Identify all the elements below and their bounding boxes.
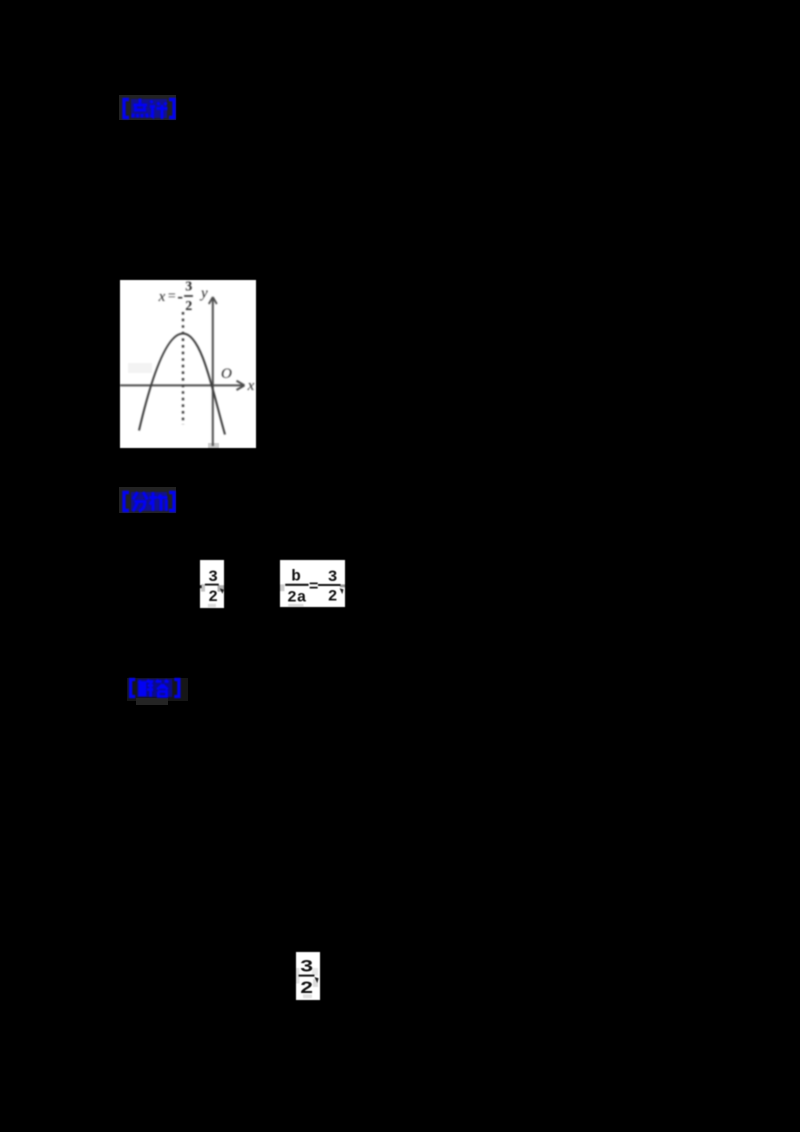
label 1 【点评】 blue heading with dark highlight box bbox=[119, 95, 176, 120]
svg-text:y: y bbox=[199, 286, 208, 302]
labels bbox=[158, 279, 255, 394]
x-axis bbox=[120, 384, 244, 386]
svg-text:2: 2 bbox=[185, 299, 192, 314]
【 bbox=[124, 100, 129, 118]
svg-text:=: = bbox=[309, 578, 319, 596]
formula image 3: 3/2 (white box, bottom) bbox=[296, 952, 320, 1000]
svg-text:3: 3 bbox=[208, 568, 218, 586]
parabola bbox=[139, 334, 225, 435]
formula image 1: 3/2 (white box) bbox=[200, 560, 224, 608]
svg-text:3: 3 bbox=[185, 280, 192, 294]
svg-text:O: O bbox=[221, 366, 232, 382]
dashed axis of symmetry x=-3/2 bbox=[182, 312, 184, 425]
label 2 【分析】 blue heading with dark highlight box bbox=[119, 487, 176, 513]
formula image 2: b/2a = -3/2 (white box) bbox=[280, 560, 345, 607]
解 bbox=[138, 680, 152, 698]
label 3 【解答】 blue heading bbox=[127, 678, 188, 701]
svg-text:b: b bbox=[291, 568, 301, 586]
svg-text:2: 2 bbox=[300, 979, 314, 999]
svg-text:x: x bbox=[247, 378, 255, 394]
答 bbox=[156, 680, 168, 697]
】 bbox=[169, 100, 174, 118]
分 bbox=[133, 492, 148, 512]
y-axis bbox=[212, 298, 214, 446]
svg-text:x: x bbox=[158, 289, 166, 305]
svg-text:3: 3 bbox=[328, 568, 338, 586]
析 bbox=[150, 492, 168, 511]
svg-text:2: 2 bbox=[328, 588, 338, 606]
svg-text:2a: 2a bbox=[287, 589, 307, 607]
svg-text:2: 2 bbox=[208, 588, 218, 606]
评 bbox=[150, 101, 168, 120]
点 bbox=[133, 99, 148, 118]
svg-text:=: = bbox=[168, 289, 176, 304]
svg-text:3: 3 bbox=[300, 958, 314, 978]
figure: parabola graph image (white background) bbox=[120, 280, 256, 448]
